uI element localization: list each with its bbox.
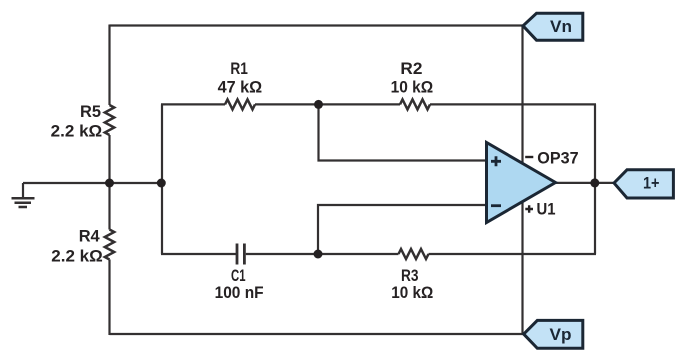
port 1+ — [614, 170, 673, 198]
port Vp — [524, 320, 583, 348]
op-amp U1 — [487, 143, 556, 223]
wire bottom junction to R3 — [318, 253, 399, 255]
U1 pin label minus — [525, 156, 533, 158]
svg-text:10 kΩ: 10 kΩ — [391, 283, 433, 302]
node C1/R3 junction — [314, 250, 323, 259]
wire R2 to feedback rail — [430, 103, 596, 105]
svg-text:R2: R2 — [400, 59, 422, 78]
wire power rail Vn to Vp — [521, 26, 523, 335]
resistor R4 — [105, 230, 114, 260]
svg-text:R1: R1 — [230, 59, 248, 78]
wire R1 to top junction — [255, 103, 319, 105]
svg-text:1+: 1+ — [643, 174, 660, 193]
svg-text:100 nF: 100 nF — [215, 283, 264, 302]
svg-text:2.2 kΩ: 2.2 kΩ — [51, 246, 103, 265]
svg-text:R4: R4 — [79, 227, 101, 246]
node mid junction — [157, 179, 166, 188]
resistor R1 — [225, 99, 255, 109]
wire bottom rail to Vp — [110, 333, 525, 335]
svg-text:R5: R5 — [80, 102, 101, 121]
wire R3 to feedback rail — [429, 253, 597, 255]
svg-text:Vn: Vn — [550, 17, 572, 36]
svg-text:U1: U1 — [537, 200, 556, 219]
node R1/R2 junction — [314, 100, 323, 109]
svg-text:10 kΩ: 10 kΩ — [391, 78, 434, 97]
wire inverting input — [318, 205, 487, 254]
resistor R5 — [105, 105, 114, 135]
wire left branch upper — [108, 25, 110, 106]
ground — [12, 183, 35, 207]
port Vn — [523, 13, 583, 40]
resistor R3 — [399, 249, 429, 259]
wire feedback rail — [594, 104, 596, 254]
svg-text:Vp: Vp — [550, 325, 572, 344]
U1 pin label plus — [525, 205, 533, 213]
wire top rail to Vn — [110, 24, 524, 26]
resistor R2 — [400, 99, 430, 109]
capacitor C1 — [237, 244, 244, 265]
wire R4 to bottom rail — [108, 260, 110, 336]
wire center node to R4 — [108, 183, 110, 230]
wire R5 to center node — [108, 135, 110, 183]
svg-text:OP37: OP37 — [537, 149, 578, 168]
wire mid vertical branch — [161, 104, 163, 254]
wire C1 to bottom junction — [246, 253, 318, 255]
node center junction — [105, 179, 114, 188]
svg-text:47 kΩ: 47 kΩ — [218, 78, 263, 97]
wire noninverting input — [319, 104, 487, 160]
svg-text:2.2 kΩ: 2.2 kΩ — [51, 121, 102, 140]
wire ground to center node — [23, 182, 162, 184]
node output junction — [590, 178, 599, 187]
wire top junction to R2 — [319, 103, 401, 105]
wire R1 line left — [161, 103, 225, 105]
wire output — [556, 182, 615, 184]
wire C1 line left — [161, 253, 236, 255]
